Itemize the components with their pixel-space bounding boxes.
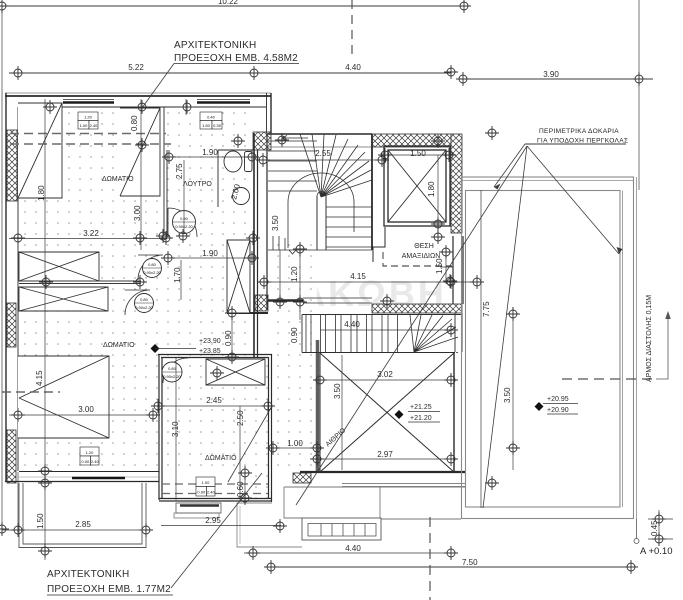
lower stair treads [306, 315, 398, 352]
level mark +21.25 [395, 410, 404, 419]
svg-text:2.97: 2.97 [377, 450, 393, 459]
leader pergola label apex underline [525, 143, 626, 145]
floor stipple regions [19, 108, 317, 500]
atrium bottom wall [300, 471, 466, 473]
bottom wall left block inner [19, 471, 159, 473]
svg-text:7.75: 7.75 [482, 301, 491, 317]
svg-text:1.20: 1.20 [86, 450, 95, 455]
pergola right edge extension to circle [636, 519, 638, 540]
dim vertical x=245 0.60 [244, 472, 246, 500]
svg-text:7.50: 7.50 [462, 558, 478, 567]
entry porch right bottom edge [381, 518, 461, 520]
leader pergola to right beam with arrow [527, 146, 619, 254]
dim vertical x=232 [231, 313, 233, 358]
expansion joint dashed line [562, 378, 656, 380]
grid line x=141 [140, 99, 142, 250]
svg-text:3.00: 3.00 [133, 205, 142, 221]
dim vertical x=176 bottom room 3.10 [175, 358, 177, 500]
svg-text:2.85: 2.85 [75, 520, 91, 529]
svg-text:ΑΡΧΙΤΕΚΤΟΝΙΚΗ: ΑΡΧΙΤΕΚΤΟΝΙΚΗ [47, 569, 129, 580]
level mark +23.90 [151, 344, 160, 353]
svg-text:ΠΕΡΙΜΕΤΡΙΚΑ ΔΟΚΑΡΙΑ: ΠΕΡΙΜΕΤΡΙΚΑ ΔΟΚΑΡΙΑ [539, 128, 619, 135]
bathroom inner partition [218, 149, 254, 151]
svg-text:0.90x2.20: 0.90x2.20 [175, 224, 193, 229]
svg-text:1.90: 1.90 [202, 249, 218, 258]
svg-text:ΠΡΟΕΞΟΧΗ ΕΜΒ. 4.58Μ2: ΠΡΟΕΞΟΧΗ ΕΜΒ. 4.58Μ2 [174, 53, 298, 64]
svg-text:3.50: 3.50 [503, 387, 512, 403]
window W2 top [197, 99, 250, 101]
svg-text:0.40: 0.40 [207, 115, 216, 120]
window W3 bottom-left [72, 477, 125, 480]
dim 4.40 bottom [244, 552, 456, 554]
dim vertical atrium 3.50 line [341, 355, 343, 470]
svg-text:ΘΕΣΗ: ΘΕΣΗ [414, 243, 434, 250]
leader pergola long down-left [296, 146, 527, 505]
garage dashed wheelchair space [383, 252, 452, 266]
svg-text:1.80: 1.80 [37, 185, 46, 201]
svg-text:1.50: 1.50 [435, 258, 444, 274]
dim vertical pergola 3.50 line [512, 307, 514, 470]
left edge extension line [1, 6, 3, 530]
dim 3.90 [463, 78, 653, 80]
dim 1.80 elevator vertical [437, 155, 439, 240]
svg-text:3.90: 3.90 [543, 70, 559, 79]
top wall outer face [5, 95, 271, 97]
svg-text:0.90: 0.90 [180, 216, 189, 221]
porch below bottom-middle room [176, 503, 221, 513]
hatched wall: lower stair band [372, 304, 462, 313]
walls [5, 93, 466, 548]
hatched pier: hall [255, 295, 268, 311]
upper stair right treads [326, 207, 372, 247]
hall wall below wardrobe [227, 312, 268, 314]
svg-text:+21.25: +21.25 [410, 404, 432, 411]
atrium top wall [320, 352, 455, 354]
leader short steep in bottom room [228, 406, 272, 482]
stair direction arrow [282, 136, 308, 141]
hatched pier: entry [293, 473, 311, 483]
expansion joint bracket [656, 315, 668, 379]
svg-text:0.90: 0.90 [290, 327, 299, 343]
dim vertical hall 1.70 [180, 260, 182, 300]
svg-text:1.00: 1.00 [80, 123, 89, 128]
svg-text:ΑΡΜΟΣ ΔΙΑΣΤΟΛΗΣ 0,15Μ: ΑΡΜΟΣ ΔΙΑΣΤΟΛΗΣ 0,15Μ [646, 295, 653, 382]
dim 4.15 garage [264, 281, 478, 283]
lower stair dashed continuation [432, 352, 458, 354]
pergola top beam second line [462, 180, 633, 182]
svg-text:0.60: 0.60 [236, 481, 245, 497]
toilet bowl [224, 151, 242, 172]
dim 2.45 bottom room [159, 405, 270, 407]
dim vertical x=280 [279, 250, 281, 305]
svg-text:ΠΡΟΕΞΟΧΗ ΕΜΒ. 1.77Μ2: ΠΡΟΕΞΟΧΗ ΕΜΒ. 1.77Μ2 [47, 584, 171, 595]
dim 3.00 room [9, 414, 160, 416]
svg-text:+20.95: +20.95 [547, 396, 569, 403]
dim 2.95 [161, 525, 281, 527]
bottom-middle room top wall [158, 355, 272, 358]
svg-text:+23.90: +23.90 [199, 338, 221, 345]
svg-text:2.50: 2.50 [236, 410, 245, 426]
dim vertical 0.45 bottom right [648, 510, 673, 545]
outer skin bottom gray [342, 483, 466, 485]
dim 1.90 bath [167, 156, 254, 158]
hatched wall: east column [451, 134, 462, 233]
svg-text:0.90x2.20: 0.90x2.20 [163, 374, 181, 379]
svg-text:0.90x2.20: 0.90x2.20 [135, 305, 153, 310]
dim 3.22 [9, 238, 167, 240]
svg-text:4.15: 4.15 [350, 272, 366, 281]
pergola outer rectangle [462, 177, 634, 519]
svg-text:0.80: 0.80 [168, 366, 177, 371]
svg-text:1.20: 1.20 [290, 266, 299, 282]
svg-text:4.15: 4.15 [35, 370, 44, 386]
dim 3.02 atrium [320, 379, 454, 381]
dim 10.22 top [2, 5, 464, 7]
furniture [18, 103, 454, 472]
svg-text:4.40: 4.40 [345, 544, 361, 553]
top wall inner face [19, 106, 266, 108]
dim 4.40 lower stair [320, 329, 455, 331]
hall door 2 label [135, 294, 154, 313]
dim 2.85 balcony [2, 529, 147, 531]
stair bottom edge notch [268, 250, 372, 254]
top wall outer thin line (projection) [5, 92, 271, 94]
bottom-middle room bottom wall [159, 499, 271, 502]
svg-text:2.45: 2.45 [206, 396, 222, 405]
beam dashed lines upper rooms [2, 134, 268, 494]
hall door 1 label [143, 259, 162, 278]
top block right edge double [266, 93, 268, 133]
svg-text:0.90: 0.90 [197, 490, 206, 495]
hatched wall: stair top band [372, 134, 451, 147]
svg-text:ΛΟΥΤΡΟ: ΛΟΥΤΡΟ [183, 181, 212, 188]
upper stair walk line [288, 173, 354, 248]
hall door 1 swing [138, 255, 163, 280]
svg-text:ΓΙΑ ΥΠΟΔΟΧΗ ΠΕΡΓΚΟΛΑΣ: ΓΙΑ ΥΠΟΔΟΧΗ ΠΕΡΓΚΟΛΑΣ [537, 138, 628, 145]
bed left room upper X [19, 252, 99, 281]
bed lower-left bowtie [18, 356, 109, 438]
bathroom door label circle [173, 211, 196, 234]
window tag box B2 [200, 112, 222, 129]
atrium right wall [453, 352, 455, 473]
dim vertical garage 1.50 [445, 248, 447, 284]
wall stub below elevator [373, 227, 385, 262]
leader pergola to top beam with arrow [494, 144, 525, 187]
atrium X brace [320, 353, 454, 472]
balcony bottom-left outline [19, 483, 23, 548]
entry steps box [302, 518, 381, 540]
upper stair winder fan [300, 134, 372, 197]
bottom room door label [162, 362, 182, 382]
dim vertical bath 2.75 [183, 160, 185, 232]
window W1 top [63, 99, 114, 101]
east wall below column [453, 236, 463, 304]
svg-text:ΔΩΜΑΤΙΟ: ΔΩΜΑΤΙΟ [205, 455, 237, 462]
svg-text:+20.90: +20.90 [547, 407, 569, 414]
svg-text:3.50: 3.50 [333, 383, 342, 399]
svg-text:+23.85: +23.85 [199, 348, 221, 355]
svg-text:0.00: 0.00 [81, 459, 90, 464]
svg-text:2.40: 2.40 [91, 459, 100, 464]
svg-text:0.80: 0.80 [130, 115, 139, 131]
bottom-middle room right wall [269, 354, 272, 502]
window tag box B4 [196, 477, 215, 496]
bed bottom-middle X [206, 359, 265, 385]
upper stair left treads [268, 141, 317, 191]
wardrobe hall X [227, 240, 250, 313]
stair left wall [266, 133, 268, 310]
stair top wall [268, 133, 372, 135]
room floor dots: upper-left rooms + bathroom + hall [19, 108, 253, 471]
svg-text:1.20: 1.20 [84, 115, 93, 120]
lower stair fan [410, 315, 458, 352]
svg-text:2.55: 2.55 [315, 149, 331, 158]
dim 2.97 atrium [317, 458, 454, 460]
grid line x=186 [185, 99, 187, 115]
bathroom left wall [163, 107, 165, 235]
axis dashed top [351, 0, 353, 55]
hatched wall: left wall lower [7, 430, 16, 483]
dim vertical x=300 upper [299, 242, 301, 320]
svg-text:1.50: 1.50 [36, 513, 45, 529]
bathroom door swing [168, 208, 197, 237]
leader bottom projection label [171, 473, 262, 588]
stair bottom wall [268, 299, 303, 302]
entry porch left edge [284, 487, 302, 518]
dim vertical x=240 bottom room 2.50 [239, 406, 241, 500]
dim vertical pergola 7.75 line [480, 190, 482, 508]
toilet tank [245, 152, 253, 172]
dim vertical x=45 balcony 1.50 handled by grid line [17, 472, 19, 532]
svg-text:0.45: 0.45 [650, 520, 659, 536]
svg-text:1.50: 1.50 [410, 149, 426, 158]
atrium left wall double [316, 340, 320, 472]
svg-text:A +0.10: A +0.10 [640, 546, 673, 557]
lower stair box [302, 315, 462, 353]
leader pergola long down to porch [483, 146, 527, 508]
bottom room door swing [163, 358, 188, 383]
dim 2.55 stair [263, 159, 385, 161]
svg-text:3.00: 3.00 [78, 405, 94, 414]
hatched pier: stair left top [253, 132, 271, 150]
svg-text:4.40: 4.40 [344, 320, 360, 329]
left wall outer face [5, 93, 7, 482]
level mark +20.95 [535, 402, 544, 411]
svg-text:0.80: 0.80 [148, 262, 157, 267]
bottom-middle room left wall [159, 354, 162, 500]
svg-text:ΑΡΧΙΤΕΚΤΟΝΙΚΗ: ΑΡΧΙΤΕΚΤΟΝΙΚΗ [174, 40, 256, 51]
svg-text:10.22: 10.22 [218, 0, 239, 6]
bottom wall left block outer [5, 481, 159, 483]
svg-text:1.50: 1.50 [202, 123, 211, 128]
wardrobe upper-left with diagonal [18, 103, 62, 198]
stair/elevator separating wall [371, 134, 373, 250]
elevator shaft outer [384, 146, 450, 226]
leader to top projection label [142, 64, 174, 109]
window tag box B1 [78, 112, 98, 129]
svg-text:1.00: 1.00 [287, 439, 303, 448]
fixtures [125, 151, 252, 383]
wardrobe upper-mid with X [120, 108, 160, 196]
svg-text:3.50: 3.50 [271, 215, 280, 231]
dim 1.90 hall [167, 257, 254, 259]
node hall-right dots [268, 238, 317, 472]
svg-text:4.40: 4.40 [345, 63, 361, 72]
svg-text:5.22: 5.22 [128, 63, 144, 72]
upper stair newel [317, 196, 326, 250]
svg-text:1.70: 1.70 [173, 267, 182, 283]
stairs [268, 134, 462, 353]
window tag box B3 [80, 447, 99, 465]
leaders [142, 64, 626, 589]
axis line right [638, 0, 640, 190]
elevator shaft inner [388, 150, 446, 222]
elevator X brace [388, 150, 446, 222]
svg-text:0.35: 0.35 [213, 123, 222, 128]
entry porch top edge [284, 486, 465, 488]
walkway gray left of steps [237, 503, 302, 547]
wall right of bottom-middle room [316, 440, 318, 472]
svg-text:1.00: 1.00 [202, 480, 211, 485]
pergola [462, 0, 671, 544]
dim 1.00 [272, 447, 319, 449]
svg-text:ΔΩΜΑΤΙΟ: ΔΩΜΑΤΙΟ [102, 176, 134, 183]
svg-text:+21.20: +21.20 [410, 415, 432, 422]
svg-text:0.90: 0.90 [224, 330, 233, 346]
bed left room second X [19, 287, 108, 311]
svg-text:3.22: 3.22 [83, 229, 99, 238]
dim 7.50 bottom [266, 566, 634, 568]
svg-text:2.40: 2.40 [207, 490, 216, 495]
svg-text:3.02: 3.02 [377, 370, 393, 379]
svg-text:0.90x2.20: 0.90x2.20 [143, 270, 161, 275]
svg-text:2.95: 2.95 [205, 516, 221, 525]
dim 1.50 elevator [385, 154, 450, 156]
svg-text:3.10: 3.10 [171, 421, 180, 437]
pergola inner rectangle [466, 191, 621, 508]
wall between hall and stair [253, 133, 255, 358]
hall door 2 swing [125, 290, 150, 315]
hatched wall: left wall middle [7, 303, 16, 347]
axis dashed bottom [429, 517, 431, 600]
upper stair return treads [273, 236, 285, 250]
svg-text:2.75: 2.75 [175, 163, 184, 179]
left wall inner face [17, 107, 19, 471]
boiler circle [233, 188, 250, 205]
dim 5.22 / 4.40 [9, 72, 451, 74]
svg-text:2.40: 2.40 [90, 123, 99, 128]
svg-text:0.80: 0.80 [140, 297, 149, 302]
svg-text:1.90: 1.90 [202, 148, 218, 157]
grid line x=45 [44, 99, 46, 560]
svg-text:ΔΩΜΑΤΙΟ: ΔΩΜΑΤΙΟ [103, 342, 135, 349]
dim vertical left 1.80/3.00 ticks [44, 107, 46, 238]
wall line y=282 [19, 281, 141, 284]
pergola right wall second lines [622, 191, 624, 508]
hatched wall: left wall upper [7, 130, 17, 201]
svg-text:1.80: 1.80 [427, 181, 436, 197]
